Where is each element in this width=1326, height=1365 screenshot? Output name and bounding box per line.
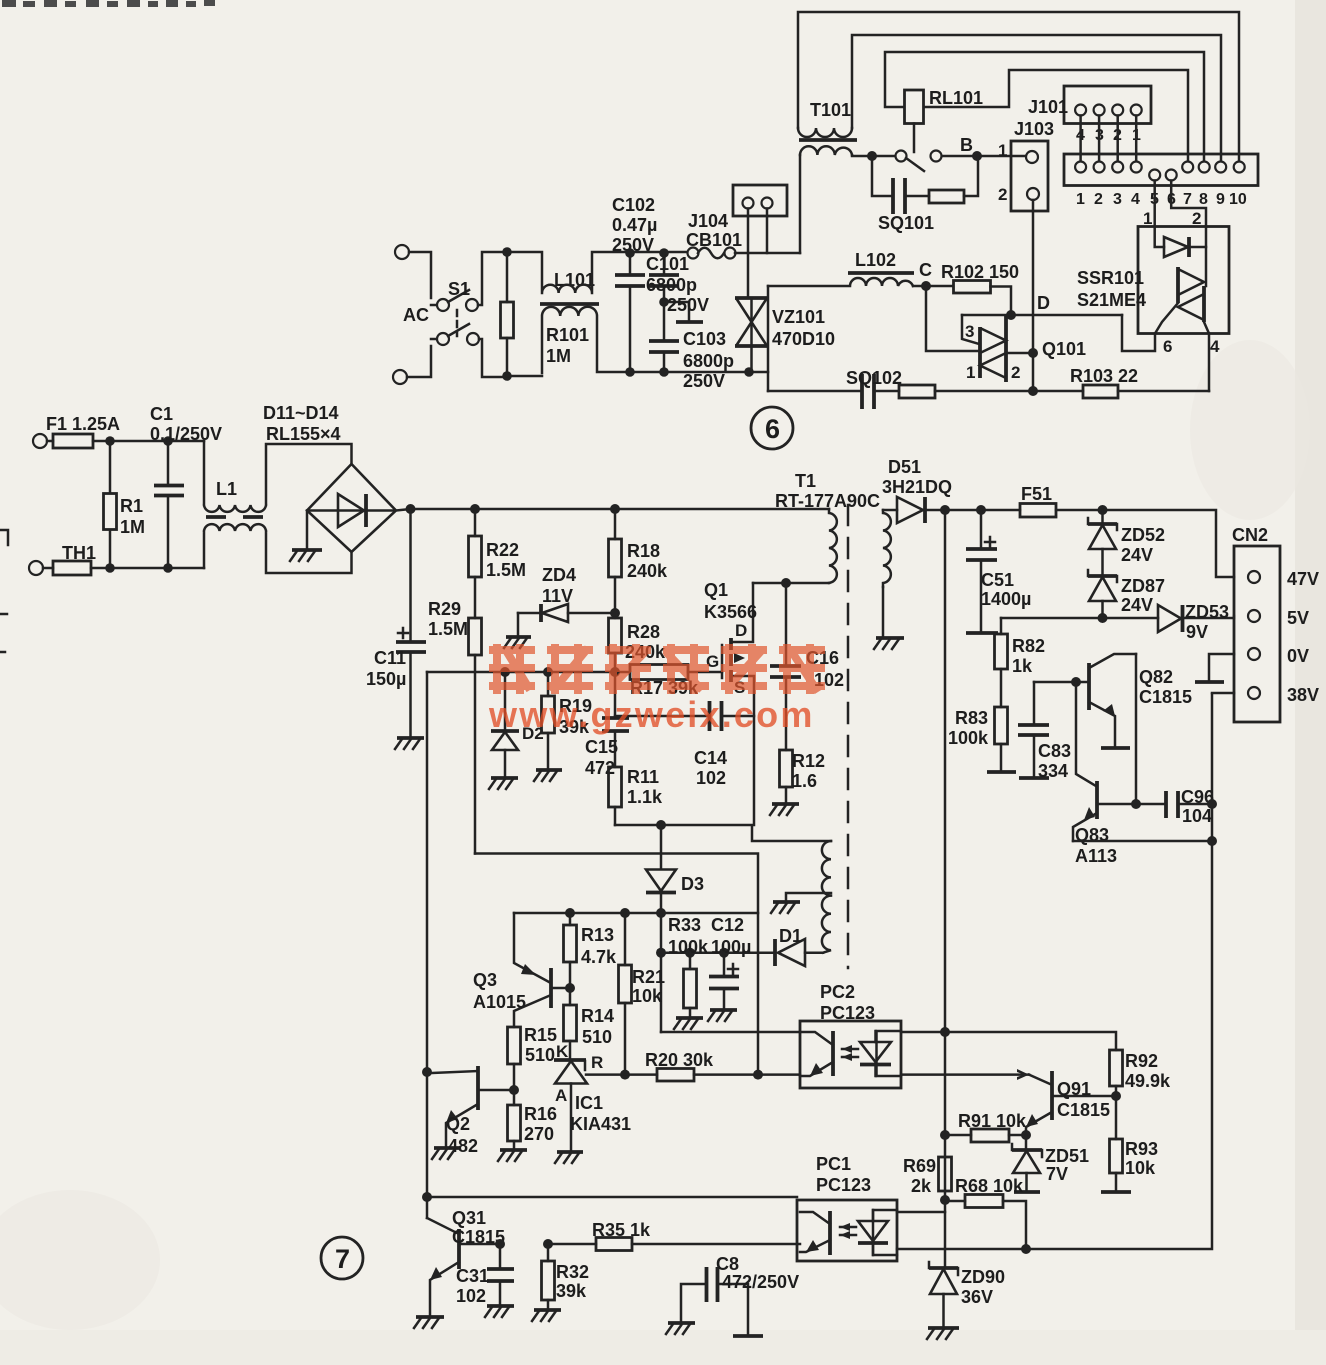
label Q1 S (734, 678, 745, 697)
earth stub from C101 node (664, 302, 703, 322)
label C16 (806, 648, 844, 690)
label R103 22 (1070, 366, 1138, 386)
label R28 (625, 622, 666, 662)
svg-text:100µ: 100µ (711, 937, 751, 957)
svg-text:R21: R21 (632, 967, 665, 987)
ground C12 (708, 1010, 737, 1021)
resistor R20 (625, 1069, 800, 1082)
svg-text:Q3: Q3 (473, 970, 497, 990)
zener ZD90 (929, 1262, 958, 1328)
capacitor C103 (649, 302, 679, 372)
wire top rail to CB101 (630, 251, 687, 254)
node C51 top (976, 505, 986, 515)
wire node D to SSR (962, 314, 1122, 317)
label C102 (612, 195, 657, 255)
svg-text:6800p: 6800p (683, 351, 734, 371)
ground T1 secondary (874, 587, 904, 649)
label R (591, 1053, 603, 1072)
svg-text:1M: 1M (120, 517, 145, 537)
watermark characters (489, 644, 825, 694)
svg-text:250V: 250V (667, 295, 709, 315)
svg-text:7V: 7V (1046, 1164, 1068, 1184)
node bridge output (406, 504, 416, 514)
label Q2 (446, 1114, 478, 1156)
node D2 tap (500, 667, 510, 677)
node R18 top (610, 504, 620, 514)
svg-text:470D10: 470D10 (772, 329, 835, 349)
inductor L101 top winding (507, 252, 630, 293)
node D3 top (656, 820, 666, 830)
svg-text:36V: 36V (961, 1287, 993, 1307)
svg-text:R20 30k: R20 30k (645, 1050, 714, 1070)
svg-text:IC1: IC1 (575, 1093, 603, 1113)
label ZD53 (1185, 602, 1229, 642)
wire AC top terminal to switch (409, 252, 436, 305)
resistor R92 (1110, 1050, 1123, 1139)
resistor R14 (564, 1005, 577, 1060)
svg-text:1: 1 (966, 363, 975, 382)
resistor R1 (104, 441, 117, 568)
wire feedback top line (514, 912, 758, 915)
label Q3 (473, 970, 526, 1012)
label ZD4 (542, 565, 576, 606)
ground bar C8 right (733, 1334, 763, 1338)
node R21 top (620, 908, 630, 918)
ground bar 0V (1195, 680, 1224, 684)
resistor R69 (939, 1157, 952, 1191)
label SSR101 (1077, 268, 1146, 310)
svg-text:C83: C83 (1038, 741, 1071, 761)
node R33 top (685, 948, 695, 958)
svg-text:R28: R28 (627, 622, 660, 642)
label R83 (948, 708, 989, 748)
svg-text:A: A (555, 1086, 567, 1105)
svg-text:6: 6 (1163, 337, 1172, 356)
node ZD52 top (1098, 505, 1108, 515)
svg-text:K3566: K3566 (704, 602, 757, 622)
label 47V (1287, 569, 1319, 589)
L1 core dashes (206, 515, 263, 519)
svg-text:R93: R93 (1125, 1139, 1158, 1159)
svg-text:F1 1.25A: F1 1.25A (46, 414, 120, 434)
label SSR pin6 (1163, 337, 1172, 356)
ground C11 (395, 738, 424, 749)
wire connector pin5 to SSR pin1 (1153, 181, 1156, 227)
resistor R12 (780, 750, 793, 804)
label R68 10k (955, 1176, 1024, 1196)
label ZD87 (1121, 576, 1165, 615)
svg-text:10k: 10k (1125, 1158, 1156, 1178)
label A (555, 1086, 567, 1105)
inductor L1 bottom winding (204, 524, 352, 573)
wire R29 feedback link (475, 854, 758, 1076)
svg-text:10k: 10k (632, 986, 663, 1006)
svg-text:2: 2 (1011, 363, 1020, 382)
wire switch to rails (478, 252, 507, 377)
svg-text:R15: R15 (524, 1025, 557, 1045)
diode D2 (491, 672, 519, 777)
ground ZD90 (927, 1328, 959, 1339)
svg-text:9: 9 (1216, 191, 1225, 208)
svg-text:D: D (735, 621, 747, 640)
node C102 bottom (625, 367, 635, 377)
label L1 (216, 479, 237, 499)
label R32 (556, 1262, 589, 1301)
transistor Q3 (514, 913, 570, 1027)
svg-text:100k: 100k (668, 937, 709, 957)
svg-text:L1: L1 (216, 479, 237, 499)
svg-text:R32: R32 (556, 1262, 589, 1282)
resistor SQ102 series (899, 385, 1083, 398)
resistor R83 (995, 707, 1008, 771)
svg-text:R103 22: R103 22 (1070, 366, 1138, 386)
label Q91 (1057, 1079, 1110, 1120)
label TH1 (62, 543, 96, 563)
connector J104 (733, 185, 787, 216)
label C101 (646, 254, 709, 315)
ground bar ZD51 (1014, 1190, 1040, 1194)
node TH1 R1 (105, 563, 115, 573)
svg-text:S1: S1 (448, 279, 470, 299)
label Q1 D (735, 621, 747, 640)
svg-text:1: 1 (1076, 191, 1085, 208)
transformer T1 auxiliary winding (822, 841, 831, 953)
label C11 (366, 648, 406, 689)
svg-text:SSR101: SSR101 (1077, 268, 1144, 288)
resistor R102 (913, 281, 1011, 316)
relay coil RL101 (905, 90, 924, 124)
capacitor C11 (396, 509, 426, 738)
svg-text:510: 510 (582, 1027, 612, 1047)
node R21 IC1 (620, 1070, 630, 1080)
label R19 (559, 696, 592, 737)
svg-text:104: 104 (1182, 806, 1212, 826)
resistor R15 (508, 1027, 521, 1090)
wire T101 secondary to relay contact (852, 155, 895, 156)
transistor Q31 (427, 1218, 500, 1316)
svg-text:R12: R12 (792, 751, 825, 771)
label AC (403, 305, 429, 325)
svg-text:PC123: PC123 (820, 1003, 875, 1023)
svg-text:Q2: Q2 (446, 1114, 470, 1134)
resistor R17 (630, 665, 722, 680)
svg-text:ZD87: ZD87 (1121, 576, 1165, 596)
capacitor C83 (1018, 682, 1049, 777)
resistor R21 (619, 913, 632, 1075)
fuse CB101 (688, 248, 736, 259)
transformer T101 primary (798, 128, 852, 137)
svg-text:TH1: TH1 (62, 543, 96, 563)
label R82 (1012, 636, 1045, 676)
svg-text:38V: 38V (1287, 685, 1319, 705)
ground bar C51 (966, 631, 998, 635)
svg-text:R82: R82 (1012, 636, 1045, 656)
node C12 top (719, 948, 729, 958)
label IC1 (570, 1093, 631, 1134)
resistor R19 (542, 672, 555, 770)
svg-text:F51: F51 (1021, 484, 1052, 504)
label R29 (428, 599, 468, 639)
wire J104 right pin to rail (766, 209, 769, 254)
svg-text:1: 1 (998, 141, 1007, 160)
svg-text:10: 10 (1229, 191, 1247, 208)
label L102 (855, 250, 896, 270)
svg-text:C1: C1 (150, 404, 173, 424)
svg-text:1M: 1M (546, 346, 571, 366)
capacitor C31 (487, 1244, 514, 1306)
wire loop1 to connector pin10 (798, 12, 1239, 161)
label C83 (1038, 741, 1071, 781)
resistor R101 (501, 252, 514, 376)
svg-text:C103: C103 (683, 329, 726, 349)
svg-text:4: 4 (1131, 191, 1140, 208)
svg-text:RL101: RL101 (929, 88, 983, 108)
labels J101 pins 4 3 2 1 (1076, 127, 1141, 144)
svg-text:PC123: PC123 (816, 1175, 871, 1195)
svg-text:R68 10k: R68 10k (955, 1176, 1024, 1196)
mosfet Q1 (722, 583, 754, 825)
optocoupler PC2 (800, 1021, 901, 1088)
label SQ101 (878, 213, 934, 233)
wire L102 feed riser (767, 286, 770, 391)
switch S1 pole 1 (437, 290, 478, 311)
svg-text:1.5M: 1.5M (486, 560, 526, 580)
label T101 (810, 100, 851, 120)
wire SSR pin4 to bottom rail (1208, 334, 1211, 392)
ground C31 (485, 1306, 514, 1317)
label C96 (1181, 787, 1214, 826)
wire to R92 (945, 1032, 1116, 1050)
label R69 (903, 1156, 936, 1196)
label C14 (694, 748, 727, 788)
label CB101 (686, 230, 742, 250)
svg-text:6800p: 6800p (646, 275, 697, 295)
L102 core (848, 271, 914, 275)
wire 47V sense vertical (944, 510, 947, 1268)
wire 5V line (1001, 617, 1158, 620)
svg-text:C: C (919, 260, 932, 280)
label R18 (627, 541, 668, 581)
label S1 (448, 279, 470, 299)
thermistor TH1 (29, 561, 110, 575)
svg-text:C51: C51 (981, 570, 1014, 590)
svg-text:T1: T1 (795, 471, 816, 491)
label F1 (46, 414, 120, 434)
svg-text:VZ101: VZ101 (772, 307, 825, 327)
label PC2 (820, 982, 875, 1023)
label Q82 (1139, 667, 1192, 707)
node T101 secondary output (867, 151, 877, 161)
svg-text:R102 150: R102 150 (941, 262, 1019, 282)
label R1 (120, 496, 145, 537)
label D3 (681, 874, 704, 894)
connector J101 (1064, 86, 1151, 124)
node aux line left (656, 948, 666, 958)
svg-text:C31: C31 (456, 1266, 489, 1286)
svg-text:RT-177A90C: RT-177A90C (775, 491, 880, 511)
ground Q31 (414, 1317, 444, 1328)
diode D51 (883, 497, 945, 523)
capacitor C8 (681, 1267, 748, 1334)
ground D2 (489, 778, 518, 789)
resistor R16 (508, 1090, 521, 1150)
label R15 (524, 1025, 557, 1065)
wire loop4 RL101 to connector pin7 (924, 70, 1188, 161)
svg-text:Q101: Q101 (1042, 339, 1086, 359)
svg-text:SQ102: SQ102 (846, 368, 902, 388)
node ZD4 R18 R28 (610, 608, 620, 618)
node R68 R69 (940, 1195, 950, 1205)
label F51 (1021, 484, 1052, 504)
svg-text:Q1: Q1 (704, 580, 728, 600)
inductor L1 top winding (204, 441, 352, 512)
label T1 (775, 471, 880, 511)
wire Q83 emitter line (1073, 840, 1212, 843)
zener ZD4 (518, 604, 615, 622)
node C103 bottom (659, 367, 669, 377)
svg-text:S21ME4: S21ME4 (1077, 290, 1146, 310)
label R33 (668, 915, 709, 957)
wire PC2 collector line (661, 1031, 800, 1034)
svg-text:D3: D3 (681, 874, 704, 894)
wire contact to node B (942, 155, 1026, 158)
zener ZD51 (1012, 1135, 1042, 1191)
wire R11 C15 bottom line (615, 825, 831, 841)
label PC1 (816, 1154, 871, 1195)
connector J103 (1011, 141, 1048, 211)
label D11~D14 (263, 403, 341, 444)
label 38V (1287, 685, 1319, 705)
T1 core dashed line (847, 505, 850, 968)
label C31 (456, 1266, 489, 1306)
capacitor C16 (770, 583, 801, 750)
svg-text:24V: 24V (1121, 595, 1153, 615)
wire 47V rail (945, 510, 1234, 577)
node R15 R16 Q2 (509, 1085, 519, 1095)
resistor SQ101 series (929, 156, 978, 203)
inductor L102 (768, 278, 913, 286)
svg-text:Q91: Q91 (1057, 1079, 1091, 1099)
svg-text:R101: R101 (546, 325, 589, 345)
fuse F51 (1020, 504, 1056, 518)
resistor R35 (548, 1238, 800, 1251)
svg-text:3: 3 (965, 322, 974, 341)
svg-text:R69: R69 (903, 1156, 936, 1176)
ground bar Q82 emitter (1101, 746, 1130, 750)
node C1 bottom (163, 563, 173, 573)
watermark url (488, 694, 815, 735)
node rail bottom at R101 (502, 371, 512, 381)
page corner text fragment (2, 0, 215, 7)
svg-text:C101: C101 (646, 254, 689, 274)
label R12 (792, 751, 825, 791)
label R16 (524, 1104, 557, 1144)
svg-text:C8: C8 (716, 1254, 739, 1274)
switch S1 pole 2 (437, 324, 479, 345)
svg-text:K: K (556, 1042, 569, 1061)
zener ZD52 (1088, 510, 1117, 576)
svg-text:510: 510 (525, 1045, 555, 1065)
svg-text:R29: R29 (428, 599, 461, 619)
label J103 pin1 (998, 141, 1007, 160)
label CN2 (1232, 525, 1268, 545)
node D3 bottom (656, 908, 666, 918)
left margin mark (0, 530, 8, 652)
node Q2 collector (422, 1067, 432, 1077)
wire AC bottom terminal to switch (407, 339, 436, 377)
label 0V (1287, 646, 1309, 666)
node C1 top (163, 436, 173, 446)
svg-text:R11: R11 (627, 767, 659, 787)
svg-text:3H21DQ: 3H21DQ (882, 477, 952, 497)
transformer T1 secondary winding (883, 510, 891, 587)
svg-text:5V: 5V (1287, 608, 1309, 628)
SSR101 internal triac (1155, 247, 1209, 334)
circled 7 (321, 1237, 363, 1279)
diode D1 (775, 939, 823, 966)
transformer T101 secondary (800, 146, 852, 155)
node Q82 base (1071, 677, 1081, 687)
label SQ102 (846, 368, 902, 388)
svg-text:D11~D14: D11~D14 (263, 403, 339, 423)
wire Q82 collector to C96 line (1135, 654, 1138, 804)
wire Q31 collector feed line (427, 672, 797, 1218)
ground Q2 (432, 1148, 460, 1159)
node B (960, 135, 982, 161)
diode ZD53 (1158, 605, 1234, 632)
label R11 (627, 767, 663, 807)
label Q1 (704, 580, 757, 622)
svg-text:250V: 250V (683, 371, 725, 391)
capacitor C101 (649, 253, 679, 302)
ground bar C83 (1019, 776, 1049, 780)
svg-text:R14: R14 (581, 1006, 614, 1026)
svg-text:D: D (1037, 293, 1050, 313)
resistor R22 (469, 509, 482, 618)
node R22 top (470, 504, 480, 514)
node Q82 C96 (1131, 799, 1141, 809)
node R13 top (565, 908, 575, 918)
svg-text:R: R (591, 1053, 603, 1072)
label J104 (688, 211, 728, 231)
svg-text:100k: 100k (948, 728, 989, 748)
svg-text:1.6: 1.6 (792, 771, 817, 791)
svg-text:1.1k: 1.1k (627, 787, 663, 807)
svg-text:240k: 240k (627, 561, 668, 581)
svg-text:3: 3 (1113, 191, 1122, 208)
svg-text:R16: R16 (524, 1104, 557, 1124)
wire connector pin6 to SSR pin2 (1171, 181, 1206, 227)
svg-text:B: B (960, 135, 973, 155)
transistor Q83 (1073, 682, 1165, 841)
label ZD90 (961, 1267, 1005, 1307)
svg-text:ZD90: ZD90 (961, 1267, 1005, 1287)
node C96 right (1207, 799, 1217, 809)
svg-text:R92: R92 (1125, 1051, 1158, 1071)
capacitor C96 (1166, 791, 1212, 818)
node 38V line (1207, 836, 1217, 846)
svg-text:47V: 47V (1287, 569, 1319, 589)
L101 core (540, 302, 599, 306)
svg-text:334: 334 (1038, 761, 1068, 781)
connector strip CN (1064, 154, 1258, 186)
svg-text:D1: D1 (779, 926, 802, 946)
svg-text:AC: AC (403, 305, 429, 325)
wire PC1 cathode return line (897, 694, 1212, 1249)
capacitor C102 (615, 253, 645, 372)
label J103 pin2 (998, 185, 1007, 204)
label RL101 (929, 88, 983, 108)
